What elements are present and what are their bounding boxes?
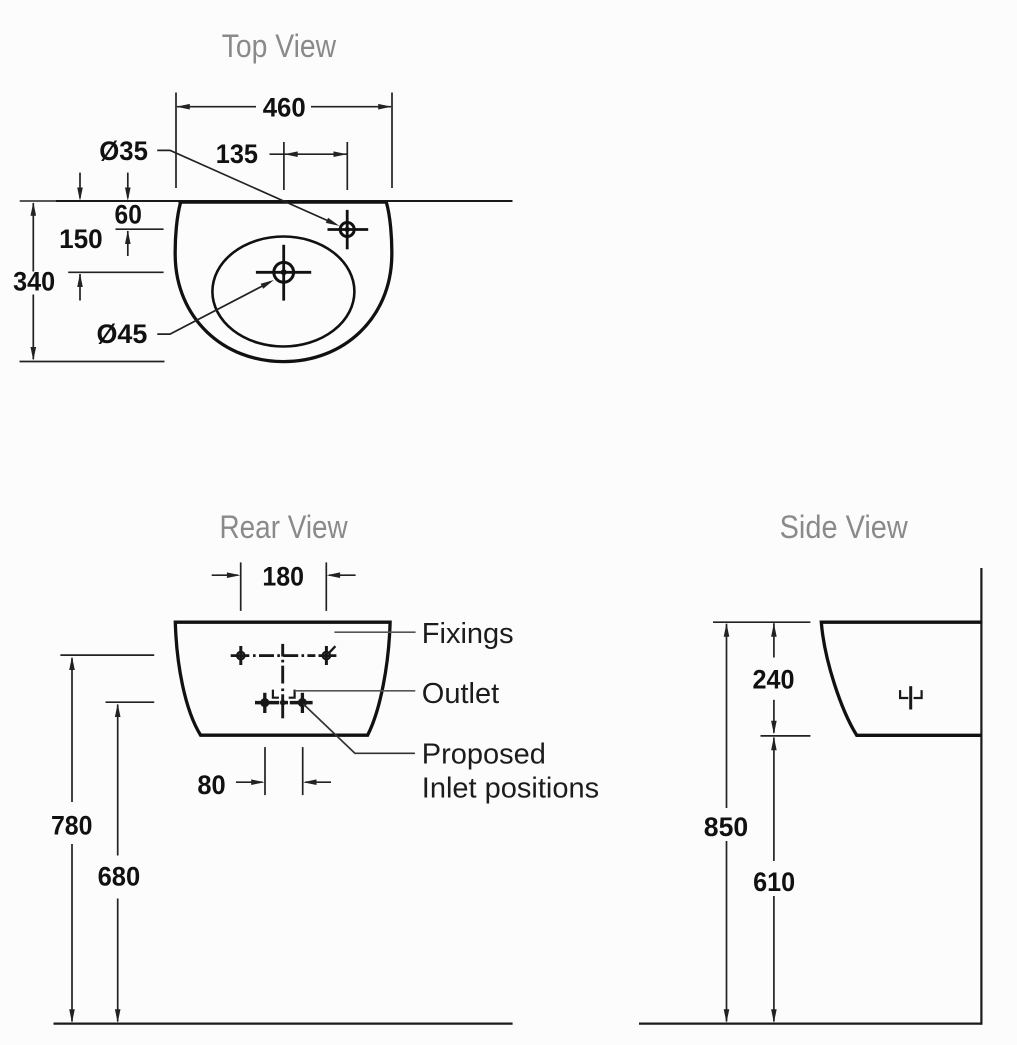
svg-text:60: 60 — [115, 199, 142, 229]
80 dimension arrows (outside, pointing in) — [236, 781, 263, 783]
centre vertical dash-dot line — [281, 644, 284, 718]
svg-text:Inlet positions: Inlet positions — [422, 773, 599, 805]
svg-text:Fixings: Fixings — [422, 618, 514, 650]
slash on right fixing — [328, 646, 335, 653]
tap symbol (side view) — [909, 686, 912, 709]
svg-text:Ø35: Ø35 — [99, 136, 148, 166]
850 dimension vertical line — [726, 624, 728, 808]
fixings centreline (dash-dot) — [231, 654, 337, 657]
waste hole crosshair (Ø45) — [256, 245, 311, 301]
tap hole crosshair (Ø35) — [328, 210, 369, 249]
basin profile (side view) — [821, 622, 981, 735]
150 reference line — [68, 271, 163, 273]
svg-text:850: 850 — [704, 812, 748, 842]
340 bottom reference line — [20, 361, 165, 363]
basin underside reference line — [761, 735, 811, 737]
svg-text:80: 80 — [197, 770, 225, 800]
leader Fixings — [334, 631, 415, 633]
outlet dashed horizontal line — [255, 701, 313, 705]
outlet height reference line — [106, 701, 155, 703]
460 dimension line with arrows — [177, 106, 391, 108]
leader Ø45 — [157, 282, 270, 334]
svg-text:150: 150 — [59, 224, 103, 254]
svg-text:Proposed: Proposed — [422, 738, 546, 770]
tap hole circle (Ø35) — [340, 223, 354, 237]
svg-text:135: 135 — [216, 139, 258, 169]
rim height reference line — [713, 621, 810, 623]
centre dot — [280, 700, 286, 706]
svg-text:680: 680 — [98, 862, 141, 892]
80 dimension extension lines — [264, 747, 266, 795]
svg-text:Ø45: Ø45 — [96, 319, 147, 349]
floor line (side view) — [639, 1022, 981, 1024]
outlet bracket left — [273, 690, 279, 698]
wall line (side view) — [980, 568, 982, 1025]
135 dimension extension lines — [283, 142, 285, 190]
680 dimension vertical line — [117, 705, 119, 856]
tap hole center dot — [345, 227, 350, 232]
135 dimension line with arrows — [270, 153, 347, 155]
180 dimension arrows (outside, pointing in) — [212, 574, 238, 576]
svg-text:Top View: Top View — [222, 28, 337, 64]
fixings height reference line — [60, 654, 154, 656]
svg-text:780: 780 — [51, 810, 93, 840]
left inlet mark — [263, 693, 266, 713]
340 dimension vertical line — [32, 203, 34, 272]
svg-text:Side View: Side View — [780, 509, 909, 545]
leader Outlet — [295, 690, 416, 692]
780 dimension vertical line — [71, 658, 73, 802]
up arrow under 150 line — [79, 274, 81, 301]
svg-text:240: 240 — [753, 665, 795, 695]
610 dimension vertical line — [773, 738, 775, 862]
svg-text:460: 460 — [263, 93, 306, 123]
outlet bracket right — [289, 690, 295, 698]
left fixing mark — [239, 646, 242, 665]
svg-text:Outlet: Outlet — [422, 678, 499, 710]
wall reference stub (top view) — [20, 200, 56, 202]
down arrow at x=80 (150 dim) — [79, 173, 81, 198]
svg-text:610: 610 — [753, 867, 795, 897]
svg-text:Rear View: Rear View — [220, 509, 349, 545]
leader Ø35 — [157, 150, 335, 224]
60 reference line — [116, 228, 164, 230]
basin outline (rear view) — [175, 622, 390, 735]
floor line (rear view) — [54, 1022, 513, 1024]
right fixing mark — [325, 646, 328, 665]
down arrow at x=127.8 (60 dim) — [127, 173, 129, 198]
leader Proposed Inlet positions — [303, 704, 415, 753]
waste hole center dot — [281, 269, 287, 275]
waste hole circle (Ø45) — [274, 262, 294, 282]
180 dimension extension lines — [240, 562, 242, 611]
svg-text:180: 180 — [262, 561, 304, 591]
460 dimension extension lines — [175, 93, 177, 189]
basin outline (top view) — [175, 202, 392, 362]
wall line (top view) — [56, 200, 513, 202]
inner bowl ellipse — [212, 237, 354, 347]
up arrow under 60 line — [127, 231, 129, 256]
240 dimension vertical line — [773, 623, 775, 657]
right inlet mark — [301, 693, 304, 713]
